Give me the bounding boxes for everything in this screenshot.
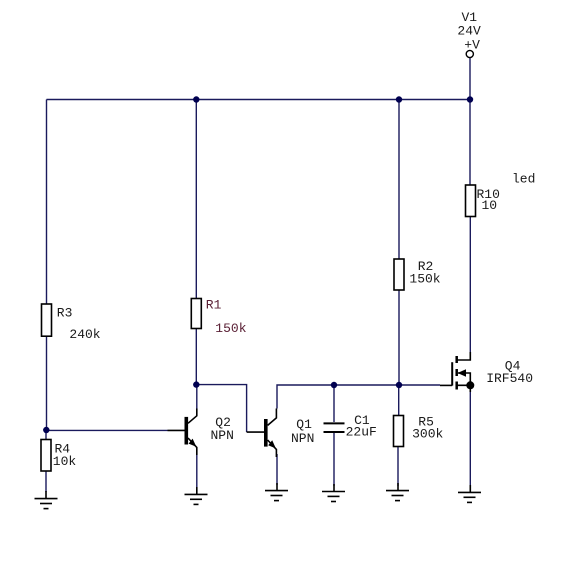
- svg-text:10: 10: [482, 198, 498, 213]
- wire Q2 collector: [196, 385, 198, 409]
- node R2 top bus: [396, 96, 402, 102]
- resistor R1: [191, 299, 201, 329]
- wire Q1 collector bus: [277, 385, 440, 409]
- wire Q2 emitter to ground: [196, 454, 198, 489]
- wire R1 bottom to node: [195, 329, 197, 385]
- wire R3 bottom to node: [46, 336, 48, 430]
- transistor Q2: [168, 409, 197, 456]
- wire node to R4: [45, 430, 47, 440]
- resistor R10: [466, 185, 476, 217]
- ground Q1: [265, 483, 288, 501]
- resistor R5: [394, 416, 404, 447]
- wire node to Q1 base: [196, 385, 246, 432]
- resistor R2: [394, 259, 404, 290]
- svg-text:10k: 10k: [53, 454, 77, 469]
- node R1 top bus: [193, 96, 199, 102]
- wire C1 bottom to ground: [333, 433, 335, 486]
- wire R3 top: [46, 100, 48, 305]
- node C1 top: [331, 382, 337, 388]
- ground R5: [386, 483, 409, 501]
- svg-text:NPN: NPN: [291, 431, 314, 446]
- svg-text:150k: 150k: [215, 321, 246, 336]
- ground R4: [35, 491, 58, 509]
- wire R5 top: [398, 385, 400, 416]
- svg-text:IRF540: IRF540: [486, 371, 533, 386]
- resistor R3: [42, 304, 52, 336]
- wire R10 to Q4 drain: [469, 217, 471, 353]
- node R3 R4 base: [43, 427, 49, 433]
- power terminal V1: [466, 50, 473, 57]
- svg-text:240k: 240k: [69, 327, 100, 342]
- svg-text:led: led: [512, 172, 535, 187]
- wire R5 bottom to ground: [397, 447, 399, 487]
- svg-text:150k: 150k: [409, 272, 440, 287]
- node R1 Q2 collector: [193, 381, 199, 387]
- mosfet Q4: [440, 352, 474, 392]
- wire C1 top: [333, 385, 335, 422]
- wire node to Q2 base: [47, 429, 168, 431]
- wire bus to R10: [469, 100, 471, 186]
- svg-text:Q1: Q1: [296, 417, 312, 432]
- svg-text:R3: R3: [57, 306, 73, 321]
- ground Q2: [185, 487, 208, 504]
- wire Q4 source to ground: [469, 390, 471, 487]
- wire R2 top: [398, 100, 400, 260]
- resistor R4: [41, 440, 51, 472]
- svg-text:24V: 24V: [457, 24, 481, 39]
- svg-text:300k: 300k: [412, 427, 443, 442]
- wire V1 to bus: [469, 58, 471, 100]
- svg-text:+V: +V: [464, 38, 480, 53]
- transistor Q1: [247, 409, 277, 458]
- node V1 bus corner: [467, 96, 473, 102]
- wire R4 to ground: [45, 471, 47, 492]
- wire Q1 emitter to ground: [276, 454, 278, 485]
- ground C1: [322, 484, 345, 502]
- wire R1 top: [195, 100, 197, 299]
- svg-text:NPN: NPN: [211, 428, 234, 443]
- node R2 R5 gate: [396, 382, 402, 388]
- ground Q4: [458, 485, 481, 502]
- svg-text:R1: R1: [206, 298, 222, 313]
- wire top bus: [47, 99, 471, 101]
- capacitor C1: [324, 423, 345, 432]
- wire R2 bottom to node: [398, 290, 400, 385]
- node junction dots: [43, 96, 473, 433]
- svg-text:22uF: 22uF: [346, 425, 377, 440]
